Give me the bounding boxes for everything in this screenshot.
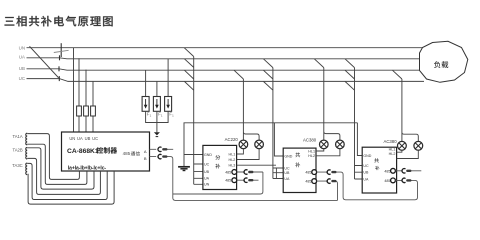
title text 三相共补电气原理图 xyxy=(5,17,15,26)
wire module3 bus taps xyxy=(345,59,355,179)
module2 box xyxy=(283,148,316,192)
svg-text:Ia+Ia-Ib+Ib-Ic+Ic-: Ia+Ia-Ib+Ib-Ic+Ic- xyxy=(68,166,107,172)
svg-text:UC: UC xyxy=(284,166,290,170)
module2 485 ports xyxy=(312,170,317,175)
wire module1 lamp returns xyxy=(237,149,276,165)
connector plug A xyxy=(158,147,161,151)
connector plug B xyxy=(158,154,161,158)
wire module3 485 plugs xyxy=(395,171,421,181)
svg-text:HL2: HL2 xyxy=(308,154,315,158)
svg-text:UC: UC xyxy=(363,164,369,168)
svg-text:UB: UB xyxy=(363,171,369,175)
svg-text:UA: UA xyxy=(363,177,369,181)
svg-text:UC: UC xyxy=(92,136,98,141)
wire UC drop to controller xyxy=(92,81,94,132)
controller box CA-868K1 xyxy=(62,132,150,171)
wire TA1A+ to Ia+ xyxy=(27,134,79,180)
wire TA3C+ to Ic+ xyxy=(27,163,107,199)
wire UB drop to controller xyxy=(85,70,87,132)
svg-text:485: 485 xyxy=(384,179,390,183)
svg-text:HL2: HL2 xyxy=(229,158,236,162)
svg-text:AC220: AC220 xyxy=(225,137,239,142)
connector module1 upper xyxy=(244,170,247,174)
wire bus N xyxy=(27,47,425,49)
wire TA2B+ to Ib+ xyxy=(27,148,94,189)
svg-text:UA: UA xyxy=(19,55,25,60)
connector module3 upper xyxy=(402,169,405,173)
cross mark on bus N xyxy=(60,43,62,57)
wire module1 lamp drop xyxy=(234,70,259,140)
svg-text:GND: GND xyxy=(204,153,212,157)
svg-text:UC: UC xyxy=(19,76,25,81)
phase-count slash xyxy=(30,46,59,78)
lamp module1 HL2 xyxy=(255,140,264,149)
svg-text:HL2: HL2 xyxy=(389,152,396,156)
svg-text:485: 485 xyxy=(384,169,390,173)
wire module3 lamp returns xyxy=(397,150,419,158)
svg-text:UA: UA xyxy=(284,177,290,181)
arrester F1 phase B xyxy=(153,97,160,112)
svg-text:UB: UB xyxy=(204,170,210,174)
wire module1 pin stubs xyxy=(194,164,203,184)
wire module1 bus taps xyxy=(184,48,194,185)
lamp module3 HL1 xyxy=(398,141,407,150)
svg-text:485: 485 xyxy=(225,179,231,183)
module3 485 ports xyxy=(391,168,396,173)
svg-text:GND: GND xyxy=(363,154,371,158)
wire TA1A- to Ia- xyxy=(27,144,87,184)
arrester F1 phase C xyxy=(165,97,172,112)
wire bus A xyxy=(27,58,425,59)
wire TA2B- to Ib- xyxy=(27,158,100,194)
svg-text:TA3C: TA3C xyxy=(12,163,22,168)
wire 485 B xyxy=(150,157,338,201)
wire bus C xyxy=(27,79,425,82)
module3 box xyxy=(362,147,396,193)
wire TA3C- to Ic- xyxy=(28,171,114,204)
connector module3 lower xyxy=(402,178,405,182)
lamp module2 HL1 xyxy=(320,140,329,149)
ground arrester earth xyxy=(154,132,160,135)
wire arrester C drop xyxy=(167,59,169,97)
wire module1 GND xyxy=(184,154,203,156)
svg-text:CA-868K1: CA-868K1 xyxy=(67,148,99,155)
lamp module1 HL1 xyxy=(239,140,248,149)
tick on bus C xyxy=(58,76,60,81)
load symbol 负载 xyxy=(420,41,468,82)
wire module3 lamp drop xyxy=(392,70,418,141)
wire ground bus xyxy=(184,123,357,167)
wire module2 bus taps xyxy=(263,59,273,179)
module1 text 分补 xyxy=(215,155,220,160)
wire arrester join xyxy=(146,111,169,132)
svg-text:GND: GND xyxy=(284,154,292,158)
wire module1 485 plugs xyxy=(237,172,263,180)
svg-text:UA: UA xyxy=(204,177,210,181)
connector module2 lower xyxy=(327,179,330,183)
svg-text:485: 485 xyxy=(225,170,231,174)
wire module2 lamp drop xyxy=(314,59,340,140)
svg-text:A: A xyxy=(144,149,147,154)
module1 485 ports xyxy=(232,170,237,175)
wire 485 A xyxy=(150,148,174,150)
wire module2 GND drop xyxy=(274,123,283,156)
lamp module2 HL2 xyxy=(336,140,345,149)
svg-text:UN: UN xyxy=(69,136,75,141)
wire module2 485 plugs xyxy=(317,172,418,200)
svg-text:AC380: AC380 xyxy=(303,137,317,142)
module3 text 共补 xyxy=(374,158,379,163)
wire arrester B drop xyxy=(156,81,158,96)
svg-text:UA: UA xyxy=(77,136,83,141)
svg-text:485: 485 xyxy=(305,180,311,184)
arrester F1 phase A xyxy=(142,97,149,112)
lamp module3 HL2 xyxy=(414,141,423,150)
wire module3 GND drop xyxy=(357,123,362,156)
svg-text:TA1A: TA1A xyxy=(13,134,23,139)
svg-text:HL1: HL1 xyxy=(308,149,315,153)
svg-text:B: B xyxy=(144,156,147,161)
wire module2 lamp returns xyxy=(316,149,340,156)
wire arrester A drop xyxy=(145,70,147,96)
svg-text:AC380: AC380 xyxy=(383,139,397,144)
ground earth symbol xyxy=(178,167,190,171)
tick on bus B xyxy=(58,66,60,71)
svg-text:485: 485 xyxy=(305,171,311,175)
svg-text:UB: UB xyxy=(19,66,25,71)
svg-text:TA2B: TA2B xyxy=(13,148,23,153)
svg-text:UN: UN xyxy=(19,45,25,50)
module2 text 共补 xyxy=(295,152,300,157)
svg-text:HL1: HL1 xyxy=(229,152,236,156)
connector module2 upper xyxy=(327,170,330,174)
svg-text:485: 485 xyxy=(123,151,131,156)
wire module3 pin stubs xyxy=(355,166,363,180)
wire UA drop to controller xyxy=(78,58,80,132)
wire module2 pin stubs xyxy=(273,168,283,179)
fuse on UA drop xyxy=(77,106,82,116)
wire bus B xyxy=(27,69,425,70)
svg-text:HL1: HL1 xyxy=(389,147,396,151)
tick on bus A xyxy=(59,55,61,60)
svg-text:HL3: HL3 xyxy=(229,164,236,168)
connector module1 lower xyxy=(244,178,247,182)
wire UN drop to controller xyxy=(73,48,75,132)
svg-text:UB: UB xyxy=(284,171,290,175)
module1 box xyxy=(203,145,237,189)
svg-text:UB: UB xyxy=(85,136,91,141)
svg-text:UN: UN xyxy=(204,183,210,187)
svg-text:UC: UC xyxy=(204,162,210,166)
fuse on UB drop xyxy=(84,106,89,116)
fuse on UC drop xyxy=(91,106,96,116)
